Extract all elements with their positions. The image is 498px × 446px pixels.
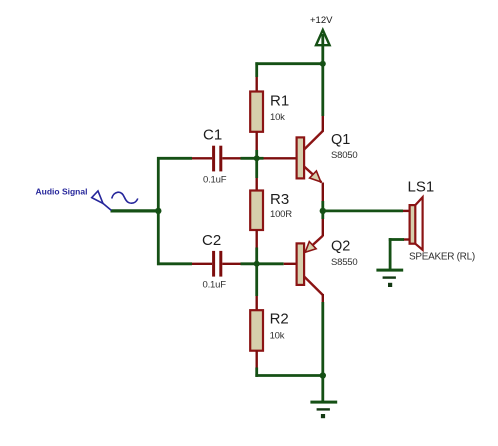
- wire: +12V shaft down to Q1 collector: [321, 34, 324, 116]
- wire: Q2 collector down to bottom rail (green): [321, 302, 324, 377]
- svg-text:LS1: LS1: [408, 179, 435, 196]
- node: junction C2/R3/R2/Q2 base: [254, 261, 260, 267]
- transistor Q1 base bar: [297, 137, 305, 178]
- node: output junction: [320, 208, 326, 214]
- wire: LS1 bottom pin (red): [403, 238, 410, 240]
- transistor Q2 base bar: [297, 243, 305, 285]
- wire: Q2 base stub (green): [257, 262, 284, 265]
- wire: speaker return vertical (green): [389, 238, 392, 269]
- loudspeaker LS1 cone: [415, 197, 422, 250]
- wire: Q1 emitter pin (red): [322, 183, 324, 202]
- svg-text:Q2: Q2: [331, 239, 350, 255]
- wire: bottom rail to ground: [321, 376, 324, 402]
- node: audio input junction: [155, 208, 161, 214]
- wire: R1 bottom lead (green part): [255, 150, 258, 160]
- wire: R3 bottom pin (red): [256, 230, 258, 248]
- wire: bottom rail horizontal: [255, 374, 324, 377]
- wire: R2 bottom lead (green): [255, 368, 258, 377]
- wire: R3 top pin (red): [256, 178, 258, 191]
- sine wave source symbol: [112, 192, 138, 203]
- svg-text:Audio Signal: Audio Signal: [36, 187, 88, 197]
- input pointer arrow: [92, 191, 112, 211]
- wire: C2 left pin (red): [192, 263, 212, 265]
- wire: C2 right pin (red): [222, 263, 240, 265]
- svg-text:+12V: +12V: [310, 15, 333, 26]
- transistor Q1 collector stroke: [304, 131, 323, 150]
- svg-text:S8050: S8050: [331, 150, 357, 161]
- capacitor C2 left plate: [212, 251, 215, 277]
- wire: Q1 emitter to output node (green): [321, 201, 324, 212]
- wire: C1 to node (green): [241, 157, 259, 160]
- wire: Q2 collector pin (red): [322, 294, 324, 302]
- wire: C1 right pin (red): [222, 157, 240, 159]
- wire: top rail horizontal: [255, 62, 324, 65]
- wire: Q1 base pin (red): [264, 157, 297, 159]
- loudspeaker LS1 body: [410, 205, 416, 244]
- wire: speaker return horizontal (green): [389, 238, 404, 241]
- ground (speaker): [376, 269, 403, 287]
- ground (bottom center): [310, 401, 337, 419]
- wire: R1 top lead (green part): [255, 62, 258, 77]
- transistor Q2 collector stroke: [304, 277, 323, 296]
- wire: Q1 collector pin (red): [322, 116, 324, 132]
- wire: R1 bottom pin (red part): [256, 132, 258, 150]
- wire: LS1 top pin (red): [403, 210, 410, 212]
- wire: output to speaker (green): [323, 209, 403, 212]
- wire: Q2 emitter pin (red): [322, 219, 324, 236]
- wire: audio input stub: [111, 209, 159, 212]
- wire: C2 row left (green): [157, 262, 192, 265]
- wire: C2 to node (green): [241, 262, 259, 265]
- capacitor C1 left plate: [212, 146, 215, 172]
- svg-text:SPEAKER (RL): SPEAKER (RL): [409, 252, 475, 263]
- node: +12V rail junction: [320, 61, 326, 67]
- transistor Q2 emitter arrow: [305, 242, 316, 253]
- svg-text:Q1: Q1: [331, 132, 350, 148]
- wire: R1 top pin (red part): [256, 77, 258, 92]
- svg-text:0.1uF: 0.1uF: [203, 175, 227, 186]
- transistor Q1 emitter stroke: [304, 167, 321, 183]
- capacitor C1 right plate: [219, 146, 222, 172]
- resistor R3: [250, 191, 263, 231]
- svg-text:10k: 10k: [270, 331, 285, 342]
- wire: C1 row left (green): [157, 157, 192, 160]
- capacitor C2 right plate: [219, 251, 222, 277]
- node: junction C1/R1/R3/Q1 base: [254, 155, 260, 161]
- node: bottom rail junction: [320, 372, 326, 378]
- wire: node to R2 (green): [255, 264, 258, 296]
- svg-text:10k: 10k: [270, 112, 285, 123]
- svg-text:C1: C1: [203, 127, 222, 144]
- svg-text:R1: R1: [270, 93, 289, 110]
- svg-text:R2: R2: [270, 311, 289, 328]
- resistor R1: [250, 92, 263, 132]
- wire: R2 bottom pin (red): [256, 351, 258, 368]
- resistor R2: [250, 310, 263, 351]
- svg-text:C2: C2: [202, 232, 221, 249]
- wire: Q1 base stub (green): [257, 157, 264, 160]
- transistor Q1 emitter arrow: [310, 171, 321, 182]
- transistor Q2 emitter stroke: [305, 236, 323, 252]
- svg-text:0.1uF: 0.1uF: [203, 280, 227, 291]
- wire: output node to Q2 emitter (green): [321, 210, 324, 219]
- power symbol +12V arrow: [316, 30, 330, 45]
- svg-text:R3: R3: [270, 191, 289, 208]
- wire: Q2 base pin (red): [284, 263, 297, 265]
- wire: R3 top lead (green): [255, 158, 258, 178]
- wire: C1 left pin (red): [192, 157, 212, 159]
- wire: left rail: [157, 157, 160, 265]
- wire: R3 bottom lead (green): [255, 248, 258, 266]
- svg-text:100R: 100R: [270, 209, 292, 220]
- svg-text:S8550: S8550: [331, 257, 357, 268]
- wire: R2 top pin (red): [256, 296, 258, 310]
